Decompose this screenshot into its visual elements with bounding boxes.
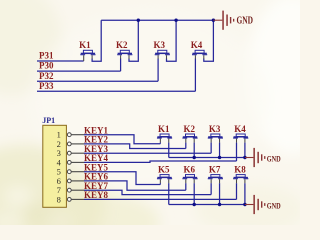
svg-text:K3: K3 bbox=[154, 40, 166, 50]
svg-text:K1: K1 bbox=[79, 40, 91, 50]
svg-text:P33: P33 bbox=[39, 81, 54, 91]
svg-text:K2: K2 bbox=[116, 40, 128, 50]
svg-text:K2: K2 bbox=[184, 124, 196, 134]
svg-text:8: 8 bbox=[57, 194, 61, 204]
svg-text:P32: P32 bbox=[39, 71, 54, 81]
svg-text:K3: K3 bbox=[209, 124, 221, 134]
svg-text:K5: K5 bbox=[158, 164, 170, 174]
svg-text:P30: P30 bbox=[39, 61, 54, 71]
svg-text:K6: K6 bbox=[184, 164, 196, 174]
svg-text:P31: P31 bbox=[39, 51, 54, 61]
svg-text:K4: K4 bbox=[234, 124, 246, 134]
svg-text:GND: GND bbox=[267, 200, 281, 210]
svg-text:K1: K1 bbox=[158, 124, 170, 134]
svg-text:K7: K7 bbox=[209, 164, 221, 174]
svg-text:K8: K8 bbox=[234, 164, 246, 174]
svg-text:JP1: JP1 bbox=[42, 116, 55, 125]
svg-text:K4: K4 bbox=[191, 40, 203, 50]
svg-text:GND: GND bbox=[267, 153, 281, 163]
svg-text:GND: GND bbox=[237, 15, 254, 26]
svg-text:KEY8: KEY8 bbox=[84, 190, 109, 200]
